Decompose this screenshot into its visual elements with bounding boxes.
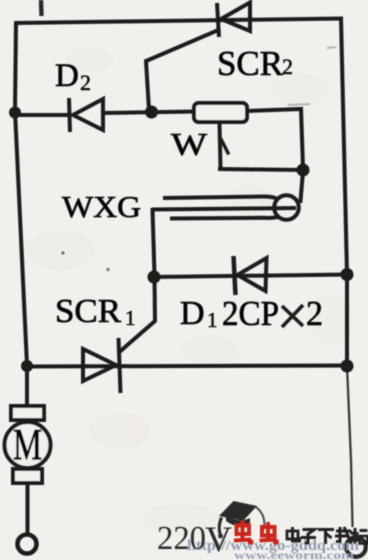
WXG bulb xyxy=(274,195,299,220)
WXG tube bottom line xyxy=(170,217,278,219)
node D1 row right xyxy=(341,268,354,281)
svg-text:SCR: SCR xyxy=(217,44,284,83)
node wiper junction dot xyxy=(297,164,310,177)
char dian xyxy=(287,531,298,539)
diode D1 symbol xyxy=(234,256,267,295)
svg-text:SCR: SCR xyxy=(55,293,121,330)
svg-text:1: 1 xyxy=(207,308,218,332)
svg-text:WXG: WXG xyxy=(62,189,141,224)
SCR Q2 symbol xyxy=(217,3,250,38)
watermark graduation cap xyxy=(218,501,257,538)
watermark black CJK text dian-zi-xia-zai-zhan xyxy=(287,527,368,544)
D1 cathode bar xyxy=(234,256,236,295)
motor body circle xyxy=(5,422,51,468)
svg-text:1: 1 xyxy=(125,306,136,330)
wire D2 branch left xyxy=(15,113,68,117)
motor M xyxy=(5,406,51,483)
svg-text:2: 2 xyxy=(282,54,293,79)
svg-text:D: D xyxy=(55,58,79,94)
node SCR1 row left xyxy=(21,360,33,372)
SCR2 cathode bar xyxy=(217,3,219,37)
faint scan dash near W corner xyxy=(288,104,310,105)
char zai xyxy=(336,530,349,533)
watermark red bug char 1 xyxy=(234,521,251,542)
diode D2 symbol xyxy=(69,98,103,132)
node left rail / D2 xyxy=(9,107,21,119)
wire left rail xyxy=(15,23,27,407)
motor bottom brush xyxy=(13,469,42,483)
watermark cap swoosh xyxy=(256,507,264,528)
D2 triangle xyxy=(73,99,103,130)
wire wiper to junction xyxy=(220,169,301,170)
node SCR1 row right xyxy=(341,360,354,373)
wire D1 row xyxy=(154,275,347,278)
svg-text:2: 2 xyxy=(80,70,91,95)
WXG electrode xyxy=(152,208,296,210)
WXG tube top line xyxy=(163,197,277,199)
wire SCR2 gate xyxy=(146,31,216,110)
SCR Q1 symbol xyxy=(83,338,121,393)
D2 cathode bar xyxy=(69,98,70,132)
terminal right (behind watermark) xyxy=(346,537,366,557)
speck near D1 row xyxy=(106,268,110,272)
svg-text:2: 2 xyxy=(306,294,323,333)
wire WXG right lead up xyxy=(301,171,304,201)
faint scan dash below SCR2 xyxy=(327,47,336,48)
svg-text:D: D xyxy=(180,295,205,332)
motor top brush xyxy=(11,406,44,420)
wire W right end down xyxy=(247,109,303,168)
wire right rail xyxy=(341,19,347,367)
svg-text:220: 220 xyxy=(157,520,206,557)
svg-text:M: M xyxy=(13,420,42,469)
wiper arrow barb xyxy=(222,140,229,153)
wire SCR1 row xyxy=(27,366,347,367)
potentiometer W body xyxy=(194,103,247,122)
top edge tick artifact xyxy=(39,0,44,16)
svg-text:2CP: 2CP xyxy=(222,294,279,333)
wire top rail xyxy=(16,19,341,24)
char zi xyxy=(303,530,315,535)
node gate2 junction xyxy=(145,106,158,119)
wire D2 to W xyxy=(103,112,194,114)
times sign of 2CPx2 xyxy=(282,305,303,327)
wire right rail lower xyxy=(347,366,353,526)
svg-text:W: W xyxy=(171,126,208,162)
wire W wiper down xyxy=(220,124,221,167)
thermal element WXG xyxy=(152,195,299,220)
wire SCR1 gate xyxy=(121,279,156,351)
speck near WXG xyxy=(61,251,64,254)
char zhan xyxy=(354,528,357,544)
terminal left xyxy=(18,535,37,554)
D1 triangle xyxy=(238,258,267,291)
svg-text:www.eeworm.com: www.eeworm.com xyxy=(234,548,354,560)
SCR2 triangle xyxy=(221,3,250,32)
SCR1 cathode bar xyxy=(119,338,121,393)
wire motor bottom lead xyxy=(26,483,30,533)
SCR1 triangle xyxy=(83,349,116,381)
node D1 row left xyxy=(148,271,161,284)
wire WXG left lead down xyxy=(153,210,155,275)
watermark red bug char 2 xyxy=(260,522,277,541)
char xia xyxy=(318,528,334,531)
